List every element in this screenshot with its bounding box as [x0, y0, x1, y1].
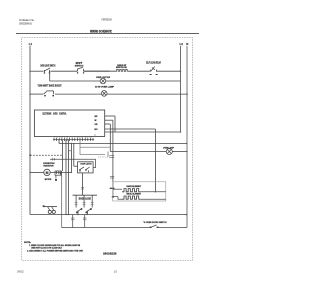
wire N rail	[186, 46, 188, 228]
wire lock to bottom row2 b	[84, 215, 86, 228]
box bake broil elements	[113, 182, 166, 201]
wire row1 seg5	[156, 70, 181, 72]
node junction bottom lock2	[86, 214, 87, 215]
wire oven lamp to N	[172, 151, 187, 153]
dashed mate segment	[98, 156, 111, 158]
power terminal mark	[43, 205, 45, 207]
door lock top bar	[73, 194, 98, 196]
svg-text:DOOR LOCK: DOOR LOCK	[79, 196, 91, 200]
wire lamp branch drop	[49, 71, 51, 81]
switch oven door	[151, 225, 157, 227]
wire stub2 drop	[112, 120, 114, 196]
schematic frame	[22, 38, 193, 261]
svg-text:MOTOR: MOTOR	[45, 179, 52, 181]
resistor surface unit	[116, 69, 128, 71]
wire sensor stub	[107, 152, 109, 157]
resistor broil element	[122, 196, 141, 199]
wire L2 rail	[180, 46, 182, 132]
svg-text:WIRING SCHEMATIC: WIRING SCHEMATIC	[90, 28, 112, 33]
svg-text:FEF350SA: FEF350SA	[102, 17, 113, 21]
wire stub4 long	[105, 128, 156, 130]
wire row3 to N	[107, 93, 187, 95]
svg-text:2: 2	[88, 171, 89, 173]
wire L1 rail	[29, 46, 31, 215]
junction bar drops	[110, 188, 115, 189]
wire lock vert2	[83, 195, 85, 207]
switch oven light switch	[44, 68, 50, 72]
wire row1 seg3	[84, 70, 110, 72]
wire pin loop bottom	[80, 147, 105, 154]
node junction row3-N	[186, 93, 188, 95]
node junction y143-N	[186, 143, 187, 144]
end mark drop	[112, 196, 114, 197]
wire bottom row2	[62, 227, 151, 229]
power terminal bar	[44, 206, 57, 208]
wire stub1 drop	[114, 116, 116, 132]
motor convection fan	[44, 169, 50, 175]
svg-text:CONTROL: CONTROL	[59, 112, 67, 115]
svg-text:OVEN LAMP: OVEN LAMP	[163, 146, 174, 149]
wire plug drop	[55, 175, 57, 178]
wire row3 seg2	[55, 93, 102, 95]
node junction L2 bottom	[180, 131, 181, 132]
svg-text:M: M	[46, 171, 49, 175]
wire drop plug to bottom row2	[61, 175, 63, 227]
wire lock drop1	[77, 211, 79, 215]
svg-text:USED WITH CLOCK 3 HR CLEAN: USED WITH CLOCK 3 HR CLEAN ONLY	[31, 246, 62, 249]
wire lock drop2	[87, 211, 89, 215]
terminal dots oven door switch	[150, 227, 152, 228]
switch lock contact 2	[86, 208, 92, 213]
wire row1 seg2	[51, 70, 78, 72]
wire row1 seg4	[128, 70, 151, 72]
svg-text:09052: 09052	[17, 269, 24, 273]
wire pin loop top	[80, 140, 111, 147]
wire row1 left	[30, 70, 44, 72]
terminal loop 1	[48, 210, 51, 213]
wire oven lamp row	[110, 151, 166, 153]
wire stub3 drop	[109, 124, 111, 152]
node junction row3-L1	[29, 93, 30, 94]
connector ticks drops a	[109, 155, 114, 178]
svg-text:2. DISCONNECT ALL POWER BEF: 2. DISCONNECT ALL POWER BEFORE SERVICING…	[27, 249, 84, 252]
connector ticks door lock	[75, 202, 94, 204]
connector strip line	[53, 138, 94, 140]
wire bake right	[141, 191, 166, 193]
wire lamp branch horizontal	[50, 80, 101, 82]
svg-text:L1: L1	[29, 42, 33, 46]
svg-text:ELECTRONIC: ELECTRONIC	[43, 112, 52, 115]
svg-text:*1500 WATT BAKE BOOST: *1500 WATT BAKE BOOST	[38, 84, 62, 87]
resistor bake element	[122, 189, 141, 192]
node junction row1-L2	[180, 71, 181, 72]
wire drop conn a	[58, 140, 60, 143]
svg-text:26026228: 26026228	[103, 252, 117, 256]
svg-text:*4 OVEN DOOR SWITCH: *4 OVEN DOOR SWITCH	[143, 221, 167, 224]
wire motor right	[51, 171, 72, 173]
svg-text:W: W	[95, 120, 97, 122]
wire L1 to motor	[30, 171, 44, 173]
svg-text:1: 1	[80, 171, 81, 173]
wire drop conn c	[65, 140, 67, 215]
svg-text:5995268410: 5995268410	[19, 21, 32, 25]
svg-text:SWITCH: SWITCH	[75, 66, 84, 68]
wire row to L2	[105, 131, 181, 133]
switch bake boost bridge	[44, 91, 54, 94]
wire loop to latch box right	[50, 159, 96, 167]
terminal marks bake relay	[150, 74, 152, 75]
connector ticks below lock	[71, 218, 87, 220]
wire lock to bottom row2 a	[72, 215, 74, 228]
svg-text:OVEN LIGHT SWITCH: OVEN LIGHT SWITCH	[40, 66, 55, 68]
wire loop2 up	[52, 207, 54, 211]
wire x73.8 to latch box	[74, 165, 78, 167]
wire loop1 up	[48, 207, 50, 211]
svg-text:FAN MOTOR: FAN MOTOR	[44, 164, 54, 167]
node junction link-L1	[29, 154, 31, 156]
lamp oven lamp	[166, 149, 172, 155]
switch 2P2T	[78, 67, 84, 71]
switch bake relay	[151, 66, 157, 71]
svg-text:10: 10	[114, 269, 118, 273]
terminal dots 2P2T	[77, 72, 78, 73]
wire broil feed drop	[118, 197, 122, 200]
terminal marks oven light switch	[44, 72, 45, 73]
node junction lamp row x155	[155, 151, 156, 152]
wire broil left feed	[113, 196, 118, 198]
wire drop conn d	[68, 140, 70, 215]
connector plug dark end	[60, 172, 62, 175]
svg-text:OVEN LIGHT SW: OVEN LIGHT SW	[96, 77, 111, 79]
header rule	[16, 32, 199, 34]
wire L1 dashed link	[30, 154, 63, 156]
box door latch switch	[78, 162, 94, 173]
connector ticks latch drop	[81, 187, 84, 189]
wire row1 seg3b	[84, 70, 117, 72]
terminal loop 2	[52, 210, 55, 213]
node junction bake right	[155, 191, 156, 192]
wire vert x73.8	[73, 143, 75, 166]
wire stub3	[105, 123, 111, 125]
svg-text:40 W OVEN LAMP: 40 W OVEN LAMP	[95, 85, 115, 88]
svg-text:L2: L2	[180, 42, 184, 46]
wire lock vert1	[75, 195, 77, 207]
switch lock contact 1	[76, 208, 82, 213]
wire broil right	[141, 198, 166, 200]
node junction bottom-N	[186, 214, 188, 216]
wire lock vert3	[91, 195, 93, 207]
lamp oven light 1	[100, 78, 106, 84]
terminal dots bake boost	[44, 95, 46, 97]
node junction motor-x71	[71, 172, 72, 173]
svg-text:BROIL ELEMENT: BROIL ELEMENT	[127, 194, 142, 196]
node junction bottom lock1	[77, 214, 78, 215]
lamp oven light 2	[101, 91, 107, 97]
box electronic oven control	[34, 110, 104, 137]
wire lamp branch to L2	[105, 80, 180, 82]
node junction conn c bottom	[65, 214, 66, 215]
wire latch box drop	[82, 173, 84, 195]
node junction conn d bottom	[68, 214, 69, 215]
svg-text:1 2 3 4 5 6 7 8 9 10 11 12 13: 1 2 3 4 5 6 7 8 9 10 11 12 13	[54, 137, 92, 139]
wire vert x71	[70, 143, 72, 172]
node junction row1-L1	[29, 71, 30, 72]
wire row y143	[59, 142, 187, 144]
connector mark below plug	[55, 179, 57, 181]
svg-text:SELF CLEAN RELAY: SELF CLEAN RELAY	[146, 61, 161, 64]
connector ticks on loop wire	[53, 158, 55, 161]
wire bottom row2 right	[158, 227, 188, 229]
node junction x71-y143	[71, 143, 72, 144]
svg-text:P1: P1	[94, 135, 96, 137]
node junction motor-L1	[29, 172, 30, 173]
wire stub4 drop	[154, 129, 156, 192]
svg-text:N: N	[186, 42, 188, 46]
connector plug small box	[55, 171, 62, 175]
svg-text:BAKE ELEMENT: BAKE ELEMENT	[127, 185, 142, 188]
wire stub2	[105, 119, 113, 121]
wire stub1	[105, 115, 115, 117]
svg-text:DOOR LATCH: DOOR LATCH	[81, 163, 93, 166]
connector pin row EOC	[54, 138, 93, 141]
bracket corner	[69, 151, 71, 156]
wire main bottom row	[30, 214, 187, 216]
connector marks motor wire	[57, 171, 59, 174]
wire row3 left	[30, 93, 43, 95]
wire bake left feed	[113, 188, 122, 190]
switch latch 1	[80, 167, 90, 171]
svg-text:SWITCH 8 IN.: SWITCH 8 IN.	[116, 67, 127, 69]
svg-text:OVEN: OVEN	[53, 112, 58, 115]
svg-text:2P2T: 2P2T	[76, 61, 83, 65]
node junction lamp-N	[186, 151, 187, 152]
wire drop conn b	[61, 140, 63, 171]
